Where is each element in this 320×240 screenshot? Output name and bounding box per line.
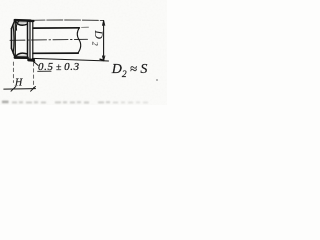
svg-text:0.5±0.3: 0.5±0.3: [38, 61, 80, 73]
svg-text:H: H: [14, 77, 23, 88]
svg-text:2: 2: [90, 42, 99, 46]
svg-text:D: D: [92, 29, 106, 39]
